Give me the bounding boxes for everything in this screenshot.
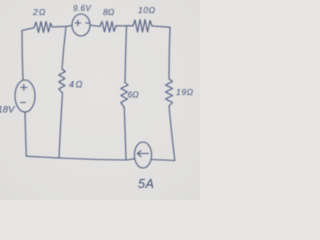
wire top-left horizontal bbox=[22, 28, 34, 31]
wire left vertical upper bbox=[22, 31, 23, 81]
V2 minus sign bbox=[21, 102, 26, 104]
wire bottom middle bbox=[59, 158, 126, 160]
svg-text:10Ω: 10Ω bbox=[138, 5, 156, 15]
wire bottom-left bbox=[26, 156, 59, 158]
wire current source to 6ohm branch bottom bbox=[126, 159, 134, 160]
wire junction B down to R6 bbox=[125, 26, 127, 83]
wire R5 to bottom bbox=[59, 93, 63, 158]
resistor R3 10ohm zigzag bbox=[133, 20, 152, 33]
svg-text:18V: 18V bbox=[0, 105, 16, 116]
wire R6 to bottom bbox=[124, 108, 126, 161]
current source I1 circle bbox=[134, 142, 151, 168]
V1 minus sign bbox=[86, 22, 90, 24]
paper background bbox=[0, 0, 200, 200]
wire junction A down to R5 bbox=[62, 26, 66, 69]
I1 arrow left bbox=[137, 151, 148, 157]
wire left vertical lower bbox=[25, 112, 26, 156]
resistor R4 19ohm vertical zigzag bbox=[166, 79, 173, 106]
svg-text:6Ω: 6Ω bbox=[128, 90, 140, 100]
resistor R6 6ohm vertical zigzag bbox=[121, 83, 128, 108]
svg-text:19Ω: 19Ω bbox=[176, 87, 194, 97]
wire R1 to junction to V1 bbox=[52, 26, 72, 28]
V2 plus sign bbox=[21, 85, 27, 91]
svg-text:4Ω: 4Ω bbox=[69, 80, 84, 90]
svg-text:5A: 5A bbox=[138, 177, 154, 191]
wire bottom-right horizontal to current source bbox=[152, 160, 175, 161]
wire R2 to R3 with junction node bbox=[116, 25, 133, 27]
resistor R2 8ohm zigzag bbox=[100, 21, 116, 32]
wire V1 to R2 bbox=[90, 25, 100, 26]
voltage source V1 circle bbox=[72, 14, 90, 36]
svg-text:8Ω: 8Ω bbox=[103, 7, 115, 17]
wire right vertical upper bbox=[169, 27, 170, 79]
wire R3 to top-right corner bbox=[152, 26, 170, 27]
resistor R1 2ohm zigzag bbox=[34, 22, 52, 33]
resistor R5 4ohm vertical zigzag bbox=[59, 69, 66, 93]
wire R4 to bottom-right corner bbox=[169, 106, 175, 161]
svg-text:2Ω: 2Ω bbox=[32, 7, 47, 17]
voltage source V2 ellipse bbox=[15, 80, 35, 112]
svg-text:9.6V: 9.6V bbox=[73, 4, 91, 13]
V1 plus sign bbox=[75, 20, 80, 26]
